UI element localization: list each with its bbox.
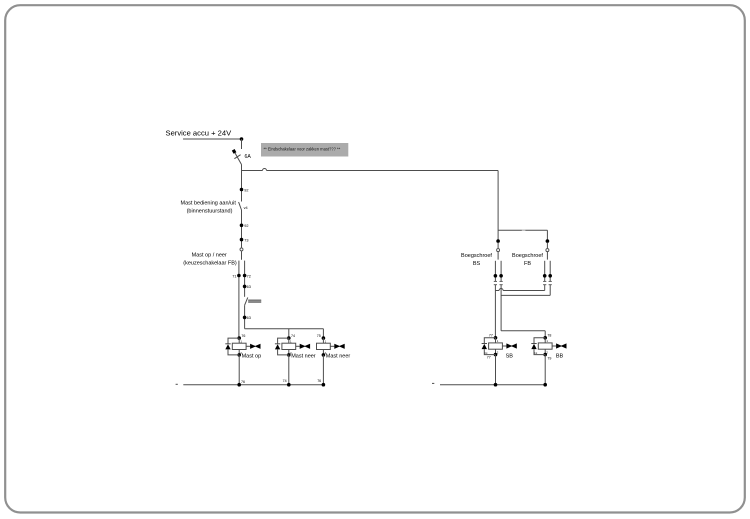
svg-text:74: 74: [291, 334, 295, 338]
svg-text:(keuzeschakelaar FB): (keuzeschakelaar FB): [183, 261, 237, 267]
svg-text:72: 72: [247, 274, 251, 278]
svg-text:(binnenstuurstand): (binnenstuurstand): [187, 208, 233, 214]
svg-text:FB: FB: [524, 261, 531, 267]
svg-text:73: 73: [244, 238, 248, 242]
svg-text:76: 76: [241, 334, 245, 338]
svg-text:76: 76: [317, 379, 321, 383]
svg-text:v4: v4: [244, 206, 248, 210]
svg-text:77: 77: [489, 334, 493, 338]
svg-text:Boegschroef: Boegschroef: [512, 253, 543, 259]
svg-text:Mast op: Mast op: [242, 354, 262, 360]
svg-text:75: 75: [317, 334, 321, 338]
svg-text:71: 71: [232, 274, 236, 278]
svg-text:SB: SB: [506, 353, 514, 359]
svg-text:Service accu + 24V: Service accu + 24V: [166, 129, 233, 138]
svg-text:74: 74: [283, 379, 287, 383]
svg-text:92: 92: [244, 188, 248, 192]
svg-text:Mast neer: Mast neer: [291, 354, 316, 360]
svg-text:Mast neer: Mast neer: [326, 354, 351, 360]
svg-text:Mast op / neer: Mast op / neer: [192, 253, 227, 259]
svg-text:76: 76: [241, 380, 245, 384]
svg-text:77: 77: [487, 356, 491, 360]
svg-text:BB: BB: [556, 353, 564, 359]
svg-text:BS: BS: [473, 261, 481, 267]
svg-text:Boegschroef: Boegschroef: [461, 253, 492, 259]
svg-text:6A: 6A: [245, 154, 252, 160]
svg-text:79: 79: [547, 356, 551, 360]
svg-text:78: 78: [547, 334, 551, 338]
svg-text:92: 92: [244, 224, 248, 228]
svg-text:63: 63: [247, 316, 251, 320]
svg-text:Mast bediening aan/uit: Mast bediening aan/uit: [181, 200, 237, 206]
svg-text:** Eindschakelaar voor zakken: ** Eindschakelaar voor zakken mast??? **: [264, 146, 341, 151]
svg-text:63: 63: [247, 285, 251, 289]
